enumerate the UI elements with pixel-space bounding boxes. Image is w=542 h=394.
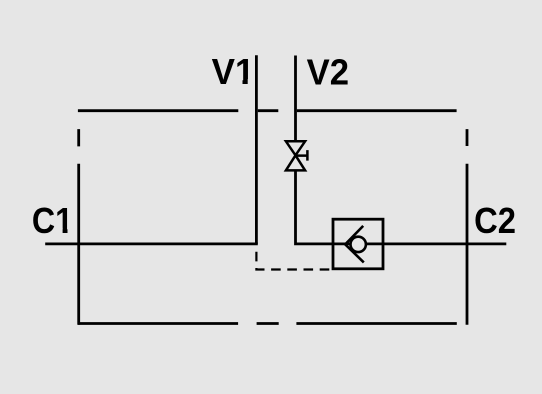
pilot line (dashed) from C1/V1 junction to check valve xyxy=(256,245,333,269)
wire port V1 vertical line xyxy=(255,55,258,244)
valve body enclosure left edge (dash then solid) xyxy=(77,129,80,325)
wire C2 horizontal line through check valve to port C2 xyxy=(333,242,506,245)
valve body enclosure top edge (long-dash) xyxy=(78,109,457,112)
throttle adjustment handle xyxy=(296,150,308,161)
wire port C1 horizontal line xyxy=(45,242,258,245)
wire port V2 vertical line (upper segment above throttle) xyxy=(294,56,297,141)
wire port V2 vertical line (lower segment below throttle) and elbow to check valve xyxy=(296,170,334,244)
svg-text:C2: C2 xyxy=(474,201,516,241)
svg-text:C1: C1 xyxy=(32,201,73,241)
valve body enclosure right edge (dash then solid) xyxy=(466,129,469,325)
valve body enclosure bottom edge (long-dash) xyxy=(78,322,457,325)
throttle needle valve (two open triangles) xyxy=(286,141,305,170)
svg-text:V1: V1 xyxy=(212,51,255,92)
check valve seat lines xyxy=(345,226,364,263)
check valve ball (circle) xyxy=(351,237,366,252)
label C1 digit foot mask xyxy=(55,228,74,234)
svg-text:V2: V2 xyxy=(307,52,349,93)
label V1 digit foot mask xyxy=(234,79,254,85)
check valve box outline xyxy=(333,219,383,269)
